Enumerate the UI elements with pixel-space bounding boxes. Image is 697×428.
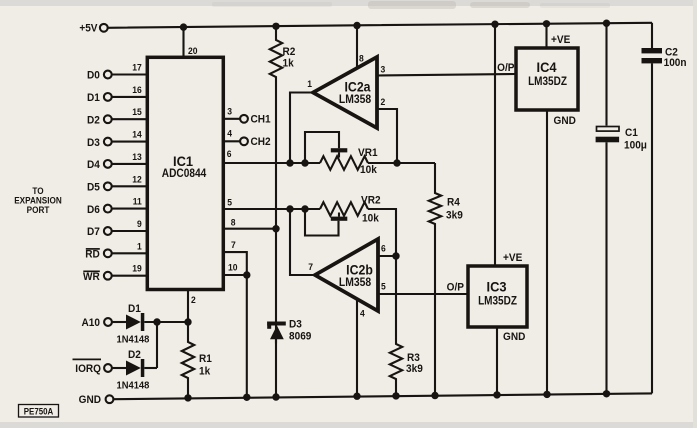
wire VR2 right corner down	[368, 209, 396, 256]
terminal IORQ	[104, 364, 112, 372]
wire IC1 pin 8 to ref	[223, 228, 276, 230]
wire VR1 right to R4	[368, 162, 435, 164]
node C1/GND	[603, 390, 610, 397]
op IC4 LM35DZ body	[516, 48, 578, 110]
svg-text:2: 2	[191, 295, 196, 305]
wire +5V top rail	[108, 23, 652, 28]
wire IC2a pin1 feedback	[290, 93, 313, 164]
node rail/IC4 +VE	[543, 20, 550, 27]
svg-text:LM358: LM358	[339, 93, 371, 106]
op IC3 LM35DZ body	[468, 266, 527, 327]
wire IC1 pin 2	[187, 290, 189, 323]
terminal D0 pin 17	[104, 71, 112, 79]
svg-text:8: 8	[231, 217, 236, 227]
svg-text:ADC0844: ADC0844	[162, 167, 207, 180]
svg-text:O/P: O/P	[497, 63, 514, 74]
terminal CH2 pin 4	[223, 140, 241, 142]
svg-text:10k: 10k	[360, 165, 377, 176]
svg-text:8069: 8069	[289, 331, 312, 342]
svg-text:2: 2	[381, 97, 386, 107]
potentiometer VR1 10k	[320, 156, 368, 170]
svg-text:14: 14	[132, 129, 142, 139]
svg-text:3k9: 3k9	[406, 364, 423, 375]
op IC1 ADC0844 body	[147, 57, 223, 289]
svg-text:LM35DZ: LM35DZ	[478, 295, 517, 308]
svg-text:6: 6	[227, 149, 232, 159]
wire C2 to GND	[651, 63, 653, 393]
svg-text:D4: D4	[87, 160, 100, 171]
resistor R3 3k9	[390, 256, 402, 396]
node rail/IC3 +VE	[491, 21, 498, 28]
svg-text:IC2a: IC2a	[345, 79, 372, 95]
node IC4 GND rail	[543, 391, 550, 398]
svg-text:4: 4	[360, 308, 365, 318]
svg-text:+VE: +VE	[551, 35, 570, 46]
terminal D1 pin 16	[104, 93, 112, 101]
node line5/VR2 bracket	[301, 205, 308, 212]
svg-text:+VE: +VE	[503, 253, 522, 264]
node pin2/R1	[184, 318, 191, 325]
node line6/IC2a pin1	[286, 159, 293, 166]
svg-text:GND: GND	[503, 332, 526, 343]
node rail/IC1 pin20	[180, 23, 187, 30]
svg-text:D0: D0	[87, 70, 100, 81]
terminal CH1 pin 3	[223, 118, 241, 120]
wire C1 top	[605, 23, 607, 125]
node rail/R2	[272, 23, 279, 30]
svg-text:IC3: IC3	[486, 279, 506, 295]
zener D3 8069	[267, 322, 286, 326]
node R3/GND	[392, 392, 399, 399]
node IC2b pin6 junction	[392, 252, 399, 259]
wire IC3 GND	[496, 327, 498, 395]
wire C1 bottom	[605, 142, 607, 393]
wire IC2a pin3 to IC4 O/P	[377, 74, 516, 76]
svg-text:D6: D6	[87, 205, 100, 216]
node R4/GND	[431, 392, 438, 399]
svg-text:D1: D1	[128, 304, 141, 315]
node D1/D2 junction	[153, 318, 160, 325]
svg-text:13: 13	[132, 152, 142, 162]
svg-text:1N4148: 1N4148	[117, 380, 150, 391]
GND terminal	[106, 395, 114, 403]
wire D3 to GND	[275, 339, 277, 397]
svg-text:O/P: O/P	[447, 282, 464, 293]
wire D2 to riser	[144, 367, 157, 369]
svg-text:17: 17	[132, 62, 142, 72]
wire pin10 to GND	[246, 275, 248, 397]
resistor R2 1k	[270, 26, 282, 321]
svg-text:1: 1	[137, 241, 142, 251]
svg-text:R1: R1	[199, 354, 212, 365]
svg-text:100μ: 100μ	[624, 140, 647, 151]
label PE750A	[19, 405, 59, 418]
wire IC3 +VE	[494, 24, 496, 266]
node pin7/pin10	[243, 271, 250, 278]
terminal D7 pin 9	[104, 227, 112, 235]
svg-text:10k: 10k	[362, 213, 379, 224]
svg-text:CH1: CH1	[251, 114, 271, 125]
svg-text:7: 7	[308, 262, 313, 272]
wire IC2b pin5 to IC3 O/P	[378, 293, 468, 295]
wire IC1 pin 7	[223, 252, 247, 275]
svg-text:D3: D3	[87, 138, 100, 149]
svg-text:1: 1	[307, 79, 312, 89]
svg-text:3: 3	[227, 106, 232, 116]
capacitor C1 100u	[597, 127, 620, 132]
svg-text:VR1: VR1	[358, 148, 378, 159]
node VR1/IC2a pin2/R4	[393, 159, 400, 166]
svg-text:R4: R4	[447, 197, 460, 208]
terminal RD pin 1	[104, 249, 112, 257]
wire IORQ to D2	[112, 367, 126, 369]
+5V terminal	[100, 24, 108, 32]
svg-text:CH2: CH2	[251, 137, 271, 148]
diode D2 1N4148	[126, 361, 141, 376]
wire A10 to D1	[112, 321, 126, 323]
op-amp IC2b LM358	[315, 239, 378, 311]
svg-text:8: 8	[359, 53, 364, 63]
svg-text:D7: D7	[87, 227, 100, 238]
svg-text:15: 15	[132, 107, 142, 117]
node rail/IC2a pin8	[353, 22, 360, 29]
terminal A10	[104, 318, 112, 326]
svg-text:16: 16	[132, 85, 142, 95]
wire IC4 GND	[546, 110, 548, 394]
svg-text:10: 10	[228, 262, 238, 272]
wire IC1 pin 6 line	[223, 162, 320, 164]
svg-text:1N4148: 1N4148	[117, 334, 150, 345]
node line6/VR1 bracket	[301, 159, 308, 166]
svg-text:GND: GND	[79, 395, 102, 406]
wire D1 to node	[144, 321, 188, 323]
wire IC1 pin20 to +5V	[182, 27, 184, 57]
wire IC2b pin7 feedback	[290, 209, 315, 275]
svg-text:IC4: IC4	[536, 60, 557, 76]
wire IC4 +VE	[545, 24, 547, 48]
wire VR1 wiper bracket	[305, 132, 339, 163]
svg-text:IC2b: IC2b	[346, 262, 373, 278]
svg-text:C1: C1	[625, 128, 638, 139]
potentiometer VR2 10k	[320, 202, 368, 216]
node ref/pin8	[272, 225, 279, 232]
wire IC1 pin 5 line	[223, 208, 320, 210]
svg-text:D2: D2	[128, 350, 141, 361]
node rail/C1	[603, 20, 610, 27]
node R1/GND	[184, 394, 191, 401]
resistor R4 3k9	[429, 163, 441, 396]
node pin10/GND	[243, 394, 250, 401]
wire IC2b pin6	[378, 255, 396, 257]
diode D1 1N4148	[126, 315, 141, 330]
wire IC2b pin4 to GND	[356, 299, 358, 396]
wire IC1 pin 10	[223, 274, 247, 276]
svg-text:+5V: +5V	[79, 23, 97, 34]
svg-text:GND: GND	[554, 116, 577, 127]
svg-text:100n: 100n	[664, 58, 687, 69]
svg-text:20: 20	[188, 46, 198, 56]
svg-text:VR2: VR2	[361, 195, 381, 206]
svg-text:3: 3	[381, 64, 386, 74]
svg-text:PE750A: PE750A	[24, 406, 53, 417]
node D3/GND	[272, 393, 279, 400]
svg-text:LM35DZ: LM35DZ	[528, 75, 567, 88]
svg-text:7: 7	[231, 240, 236, 250]
svg-text:11: 11	[133, 196, 142, 206]
svg-text:LM358: LM358	[339, 276, 371, 289]
svg-text:5: 5	[227, 197, 232, 207]
wire D2 riser	[156, 322, 158, 368]
svg-text:3k9: 3k9	[446, 210, 463, 221]
svg-text:5: 5	[381, 281, 386, 291]
svg-text:1k: 1k	[283, 58, 294, 69]
op-amp IC2a LM358	[313, 57, 377, 128]
node line5/IC2b pin7	[286, 205, 293, 212]
wire IC2a pin8 to +5V	[356, 26, 358, 69]
svg-text:1k: 1k	[199, 366, 210, 377]
node IC3 GND rail	[493, 391, 500, 398]
svg-text:R3: R3	[407, 353, 420, 364]
svg-text:D5: D5	[87, 182, 100, 193]
wire IC2a pin2 down	[377, 109, 397, 163]
svg-text:6: 6	[381, 243, 386, 253]
svg-text:D3: D3	[289, 319, 302, 330]
terminal D6 pin 11	[104, 205, 112, 213]
svg-text:D1: D1	[87, 93, 100, 104]
svg-text:PORT: PORT	[27, 205, 50, 216]
wire C2 branch	[651, 23, 653, 48]
resistor R1 1k	[182, 322, 194, 398]
svg-text:4: 4	[227, 128, 232, 138]
terminal D5 pin 12	[104, 182, 112, 190]
node pin4/GND	[353, 393, 360, 400]
terminal D4 pin 13	[104, 160, 112, 168]
svg-text:A10: A10	[82, 318, 101, 329]
terminal D3 pin 14	[104, 138, 112, 146]
svg-text:WR: WR	[83, 272, 100, 283]
svg-text:19: 19	[132, 263, 142, 273]
wire VR2 wiper bracket	[305, 209, 339, 236]
svg-text:IORQ: IORQ	[75, 364, 101, 375]
svg-text:12: 12	[132, 174, 142, 184]
svg-text:RD: RD	[85, 249, 100, 260]
svg-text:9: 9	[137, 219, 142, 229]
svg-text:R2: R2	[283, 47, 296, 58]
terminal WR pin 19	[104, 272, 112, 280]
svg-text:D2: D2	[87, 115, 100, 126]
capacitor C2 100n	[642, 48, 663, 53]
terminal D2 pin 15	[104, 115, 112, 123]
wire GND bottom rail	[113, 393, 652, 399]
